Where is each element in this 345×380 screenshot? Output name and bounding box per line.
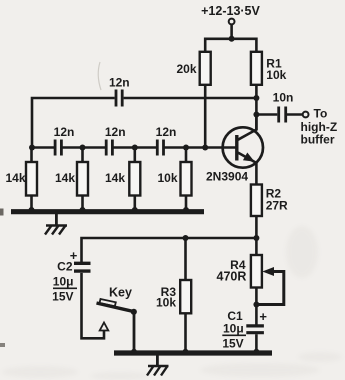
R4 wiper loop <box>256 267 283 305</box>
wire C2 row <box>82 238 257 262</box>
resistor R4 470R <box>217 238 262 288</box>
resistor 20k <box>176 52 210 85</box>
ground left <box>45 214 67 235</box>
svg-text:15V: 15V <box>222 337 243 351</box>
node base 20k junction <box>202 145 208 151</box>
node rail dots <box>29 207 35 213</box>
svg-text:14k: 14k <box>5 171 25 185</box>
node R3 rail <box>183 349 189 355</box>
wire feedback horizontal <box>32 98 256 149</box>
svg-text:12n: 12n <box>109 76 130 90</box>
svg-text:10μ: 10μ <box>53 275 74 289</box>
wire R2 bottom <box>255 216 258 238</box>
svg-text:12n: 12n <box>105 125 126 139</box>
capacitor 12n second <box>105 125 126 156</box>
svg-text:10k: 10k <box>266 68 286 82</box>
supply terminal <box>229 19 235 25</box>
wire emitter down <box>255 162 258 185</box>
output terminal <box>303 112 309 118</box>
resistor R1 10k <box>251 52 287 85</box>
capacitor C1 <box>222 309 267 351</box>
resistor R3 10k <box>156 238 191 351</box>
capacitor 12n feedback <box>109 76 130 107</box>
wire node row with base <box>32 146 236 149</box>
node key pivot <box>131 309 137 315</box>
label To high-Z buffer <box>301 107 338 147</box>
svg-text:+12-13·5V: +12-13·5V <box>201 4 260 18</box>
resistor 14k third <box>105 148 140 211</box>
wire top rail <box>205 39 256 53</box>
wire key down <box>133 312 136 351</box>
svg-text:14k: 14k <box>55 171 75 185</box>
node supply junction <box>229 36 235 42</box>
svg-text:10k: 10k <box>157 171 177 185</box>
key lever <box>97 286 134 312</box>
svg-text:14k: 14k <box>105 171 125 185</box>
scan artifacts <box>0 209 5 348</box>
ground rail bottom <box>114 350 272 355</box>
svg-text:buffer: buffer <box>301 133 335 147</box>
svg-text:To: To <box>314 107 328 121</box>
svg-text:12n: 12n <box>54 125 75 139</box>
node R4 bottom <box>253 302 259 308</box>
svg-text:10k: 10k <box>156 296 176 310</box>
wire R4 to C1 <box>255 288 258 325</box>
svg-text:10μ: 10μ <box>223 322 244 336</box>
node A <box>29 145 35 151</box>
resistor R2 27R <box>251 185 288 217</box>
wire R1 bottom collector column <box>255 85 258 130</box>
resistor 14k second <box>55 148 88 211</box>
ground bottom <box>147 356 169 376</box>
node R2 bottom <box>253 235 259 241</box>
node collector output junction <box>253 112 259 118</box>
svg-text:2N3904: 2N3904 <box>206 170 248 184</box>
svg-text:27R: 27R <box>266 199 288 213</box>
capacitor 10n output <box>273 91 294 123</box>
svg-text:C2: C2 <box>57 260 73 274</box>
node D <box>183 145 189 151</box>
ground rail left <box>11 209 204 214</box>
wire output <box>256 113 302 116</box>
wire C1 bottom <box>255 334 258 351</box>
svg-text:12n: 12n <box>156 125 177 139</box>
svg-text:+: + <box>259 309 267 324</box>
node collector feedback junction <box>253 95 259 101</box>
node C <box>132 145 138 151</box>
node R3 top <box>183 235 189 241</box>
wire 20k bottom to base <box>204 85 207 149</box>
resistor 14k first <box>5 148 37 211</box>
transistor Q1 2N3904 <box>206 127 263 183</box>
capacitor 12n first <box>54 125 75 156</box>
svg-text:15V: 15V <box>52 289 73 303</box>
wire C2 bottom to key contact <box>82 273 105 338</box>
key contact arrow <box>100 323 109 331</box>
svg-text:Key: Key <box>109 286 132 300</box>
capacitor C2 <box>52 248 90 303</box>
node B <box>80 145 86 151</box>
wire supply drop <box>230 24 233 39</box>
node key rail <box>131 349 137 355</box>
wire collector up <box>255 115 258 131</box>
svg-text:10n: 10n <box>273 91 294 105</box>
resistor 10k fourth <box>157 148 191 211</box>
capacitor 12n third <box>156 125 177 156</box>
node C1 rail <box>254 349 260 355</box>
svg-text:20k: 20k <box>176 62 196 76</box>
svg-text:470R: 470R <box>217 270 247 284</box>
